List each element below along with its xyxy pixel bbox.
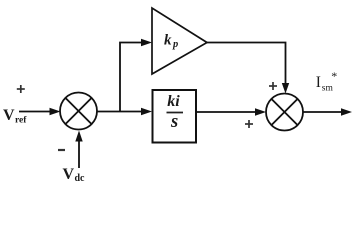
svg-text:k: k	[164, 33, 172, 49]
svg-text:ki: ki	[167, 93, 180, 110]
gain block kp (triangle)	[152, 8, 207, 74]
wire kp to S2	[207, 43, 289, 94]
svg-text:ref: ref	[15, 116, 27, 126]
svg-text:V: V	[63, 166, 75, 183]
wire output Ism	[303, 108, 352, 115]
svg-text:p: p	[172, 39, 178, 50]
node plus sign at S2 top input	[269, 82, 277, 90]
svg-text:I: I	[316, 74, 321, 91]
svg-text:dc: dc	[75, 173, 86, 184]
wire S1 to integrator	[97, 108, 152, 115]
svg-text:*: *	[331, 69, 337, 83]
wire branch to proportional block	[120, 39, 152, 112]
integrator block ki/s	[153, 90, 197, 143]
node minus sign at Vdc input	[58, 149, 65, 151]
svg-text:sm: sm	[322, 84, 334, 94]
svg-text:V: V	[3, 107, 15, 124]
svg-text:s: s	[170, 112, 178, 132]
wire integrator to S2	[196, 108, 266, 115]
wire Vref input	[19, 108, 61, 115]
node plus sign at Vref input	[17, 85, 25, 93]
node plus sign at S2 left input	[245, 120, 253, 128]
summing junction S2	[266, 94, 303, 131]
summing junction S1	[60, 93, 97, 130]
wire Vdc input	[75, 131, 82, 169]
